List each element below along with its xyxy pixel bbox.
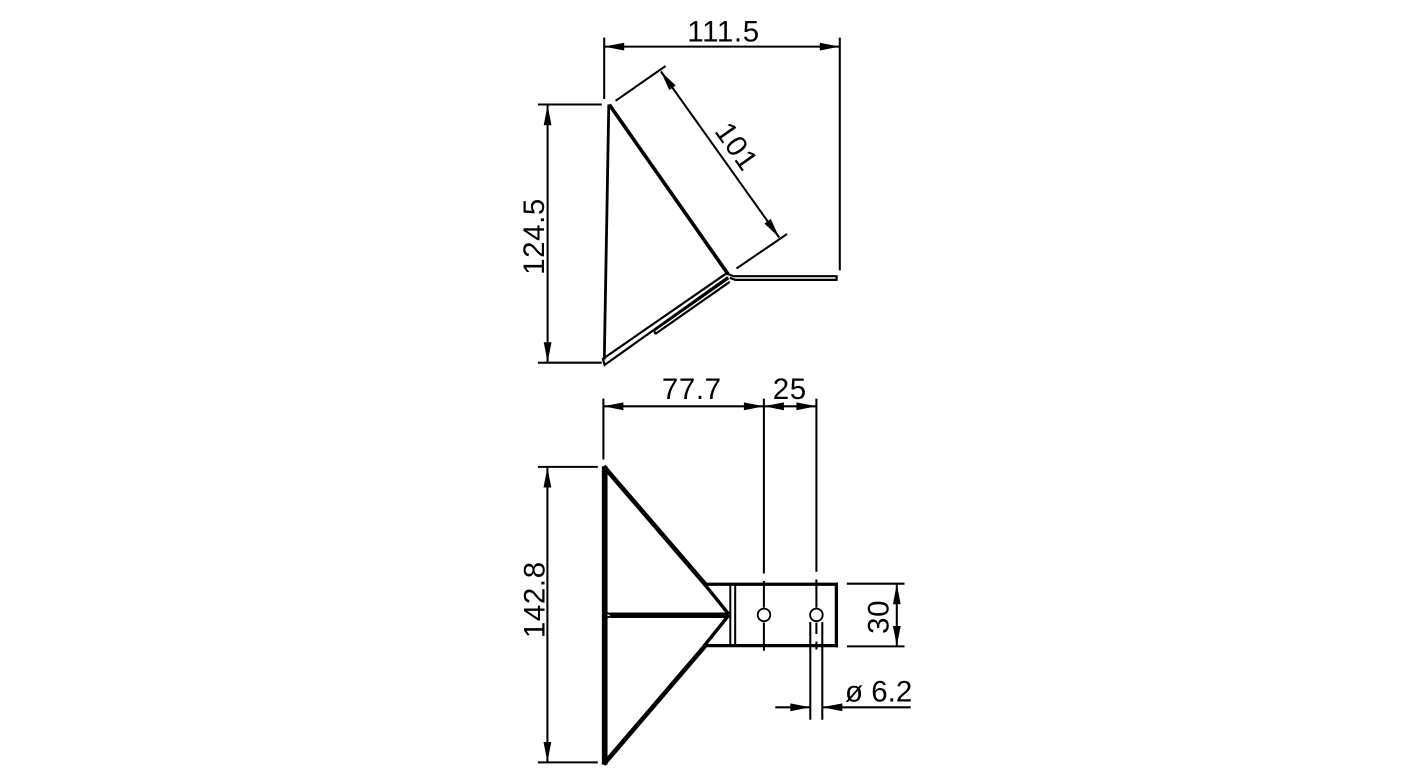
dim 111.5: right extension line	[839, 38, 841, 271]
side view: left edge	[604, 104, 609, 359]
dim 142.8: top extension line	[538, 466, 598, 468]
svg-text:124.5: 124.5	[518, 198, 551, 275]
dim 124.5: bottom arrowhead	[544, 342, 552, 362]
side view: horizontal mounting tail	[727, 274, 836, 281]
top view: lower outer diagonal (double plate)	[604, 646, 705, 764]
dim 25: right arrowhead	[796, 402, 816, 410]
top view: left edge (double plate)	[602, 466, 608, 764]
center line hole 2	[815, 399, 817, 650]
dim 111.5: right arrowhead	[820, 43, 840, 51]
dim 124.5: top arrowhead	[544, 105, 552, 125]
dim 142.8: bottom extension line	[538, 761, 598, 763]
dim 124.5: bottom extension line	[538, 362, 602, 364]
dim 30: top extension line	[847, 583, 905, 585]
center line hole 1	[763, 399, 765, 651]
dim 77.7: left extension line	[602, 399, 604, 460]
dim 6.2: left tangent extension line	[809, 622, 811, 720]
hole 1	[758, 609, 771, 622]
svg-text:25: 25	[773, 373, 807, 406]
dim 124.5: dimension line	[547, 105, 549, 362]
side view: lower sheet outline	[603, 273, 728, 365]
dim 30: bottom arrowhead	[893, 626, 901, 646]
dim 77.7: left arrowhead	[603, 402, 623, 410]
top view: fold wedge	[605, 612, 612, 618]
dim 101: dimension line	[661, 72, 779, 238]
dim 101: extension line at elbow	[737, 234, 788, 269]
dim 101: extension line at apex	[616, 66, 666, 101]
dim 142.8: top arrowhead	[544, 468, 552, 488]
dim 124.5: top extension line	[538, 103, 602, 105]
svg-text:77.7: 77.7	[662, 373, 722, 406]
dim 142.8: bottom arrowhead	[544, 742, 552, 762]
top view: lower inner diagonal	[704, 615, 729, 646]
svg-text:ø 6.2: ø 6.2	[845, 676, 912, 709]
dim 6.2: right tangent extension line	[821, 622, 823, 720]
side view: hypotenuse plate edge	[609, 105, 728, 274]
bracket: top edge	[703, 583, 838, 586]
dim 111.5: left arrowhead	[604, 43, 624, 51]
side view: overlapping sheet and horizontal tail	[654, 278, 730, 334]
dim 30: dimension line	[896, 584, 898, 646]
top view: middle fold band	[611, 613, 729, 618]
dim 6.2: left-pointing arrowhead	[822, 703, 842, 711]
svg-text:142.8: 142.8	[519, 561, 552, 638]
dim 30: top arrowhead	[893, 584, 901, 604]
svg-text:30: 30	[862, 600, 895, 634]
dim 142.8: dimension line	[546, 468, 548, 763]
dim 30: bottom extension line	[847, 645, 905, 647]
bracket: right edge	[835, 583, 838, 648]
hole 2	[810, 609, 823, 622]
dim 101: lower arrowhead	[764, 219, 779, 238]
dim 101: upper arrowhead	[661, 72, 676, 91]
svg-text:101: 101	[708, 116, 764, 177]
dim 77.7 and 25: dimension line	[603, 405, 816, 407]
top view: upper inner diagonal	[704, 584, 729, 615]
svg-text:111.5: 111.5	[687, 15, 759, 48]
bracket: bottom edge	[703, 644, 838, 647]
top view: upper outer diagonal (double plate)	[604, 466, 705, 584]
dim 25: left arrowhead	[764, 402, 784, 410]
dim 77.7: right arrowhead	[744, 402, 764, 410]
dim 6.2: right-pointing arrowhead	[790, 703, 810, 711]
bracket: sheet edge double line	[730, 584, 735, 646]
dim 6.2: left dimension line segment	[775, 706, 810, 708]
dim 111.5: dimension line	[604, 46, 840, 48]
dim 111.5: left extension line	[603, 38, 605, 99]
dim 6.2: right dimension line segment	[822, 706, 910, 708]
